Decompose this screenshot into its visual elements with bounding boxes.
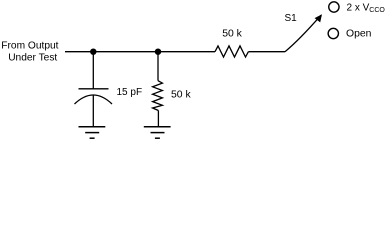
svg-text:15 pF: 15 pF bbox=[117, 87, 143, 98]
resistor R2 50 k (horizontal) bbox=[215, 46, 248, 57]
wire: capacitor top lead bbox=[92, 52, 94, 89]
svg-text:2 x VCCO: 2 x VCCO bbox=[347, 2, 386, 14]
switch S1 blade with arrowhead bbox=[285, 14, 322, 52]
svg-text:From Output: From Output bbox=[1, 41, 58, 52]
resistor R1 50 k (vertical) bbox=[153, 81, 163, 111]
svg-text:50 k: 50 k bbox=[171, 90, 191, 101]
wire: main horizontal net from input to horizontal resistor bbox=[65, 51, 215, 53]
junction: capacitor tap bbox=[90, 49, 96, 55]
wire: vertical resistor top lead bbox=[157, 52, 159, 81]
wire: capacitor bottom lead bbox=[92, 95, 94, 127]
capacitor C1 15 pF bbox=[75, 89, 113, 104]
svg-text:50 k: 50 k bbox=[222, 29, 242, 40]
wire: vertical resistor bottom lead bbox=[157, 111, 159, 127]
ground: under capacitor bbox=[79, 127, 106, 138]
ground: under vertical resistor bbox=[144, 127, 171, 138]
terminal: Open contact circle bbox=[328, 28, 338, 38]
svg-text:Open: Open bbox=[346, 29, 372, 40]
svg-text:Under Test: Under Test bbox=[8, 53, 57, 64]
wire: from horizontal resistor to switch pivot bbox=[248, 51, 285, 53]
junction: resistor tap bbox=[155, 49, 161, 55]
svg-text:S1: S1 bbox=[285, 13, 298, 24]
terminal: 2 x VCCO contact circle bbox=[329, 2, 339, 12]
